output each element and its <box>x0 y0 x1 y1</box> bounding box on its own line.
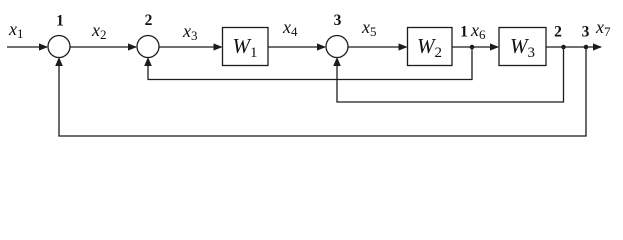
wire feedback node3 to junction1 <box>55 47 586 136</box>
svg-text:x4: x4 <box>282 17 298 39</box>
svg-text:x2: x2 <box>91 20 107 42</box>
svg-text:2: 2 <box>554 24 562 41</box>
svg-text:2: 2 <box>145 12 153 29</box>
wire feedback node2 to junction3 <box>333 47 563 102</box>
node 1 junction dot <box>470 45 475 50</box>
svg-text:1: 1 <box>56 13 64 30</box>
wire junction2 to W1 <box>159 43 223 50</box>
wire feedback node1 to junction2 <box>144 47 472 80</box>
svg-text:x6: x6 <box>470 20 486 42</box>
svg-text:x5: x5 <box>361 17 377 39</box>
wire W3 to output x7 <box>546 43 602 50</box>
wire junction1 to junction2 <box>70 43 137 50</box>
summing junction 2 <box>137 36 159 58</box>
node 3 junction dot <box>584 45 589 50</box>
svg-text:1: 1 <box>460 24 468 41</box>
block W2 <box>408 28 453 66</box>
summing junction 1 <box>48 36 70 58</box>
wire W2 to W3 <box>452 43 499 50</box>
svg-text:3: 3 <box>334 12 342 29</box>
block W3 <box>499 28 546 66</box>
node 2 junction dot <box>561 45 566 50</box>
svg-text:3: 3 <box>582 24 590 41</box>
wire junction3 to W2 <box>348 43 408 50</box>
wire input x1 <box>7 43 48 50</box>
svg-text:x1: x1 <box>8 19 24 41</box>
svg-text:x7: x7 <box>595 17 611 39</box>
svg-text:x3: x3 <box>182 21 198 43</box>
block W1 <box>223 28 269 66</box>
summing junction 3 <box>326 36 348 58</box>
wire W1 to junction3 <box>268 43 326 50</box>
